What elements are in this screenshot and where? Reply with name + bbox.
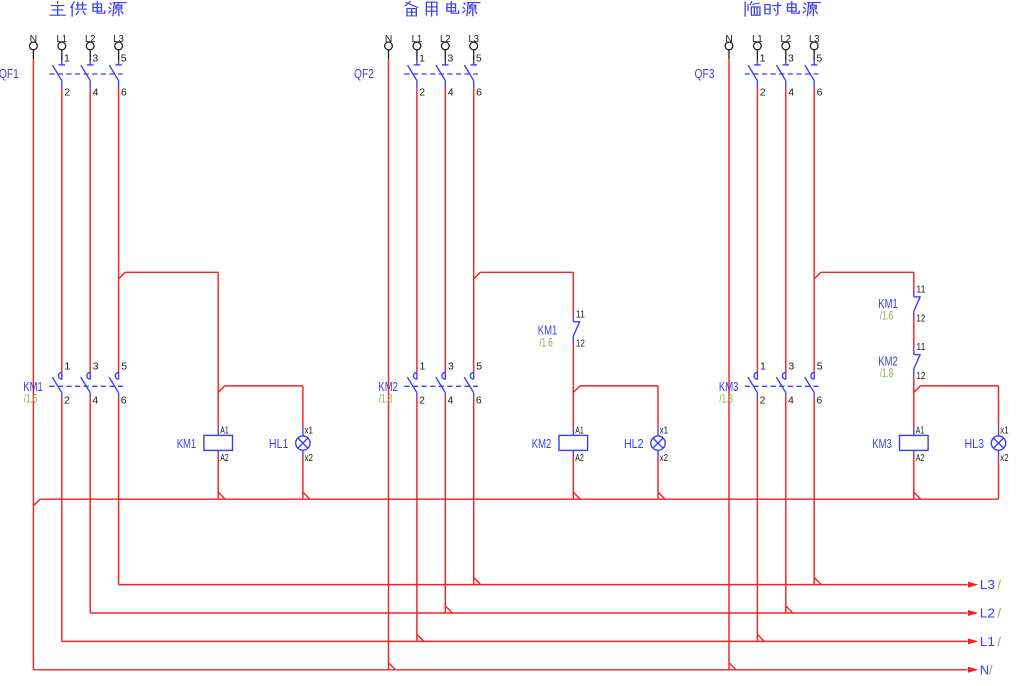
wire control branch 3 lower bbox=[913, 386, 915, 428]
svg-text:3: 3 bbox=[788, 360, 794, 372]
wire control branch 2 lower bbox=[572, 386, 574, 428]
wire L3 to bus bbox=[118, 397, 120, 584]
svg-text:2: 2 bbox=[419, 87, 425, 99]
wire control tap horizontal bbox=[480, 271, 573, 273]
svg-text:5: 5 bbox=[816, 53, 822, 65]
svg-text:1: 1 bbox=[760, 360, 766, 372]
label /1.8 bbox=[719, 392, 733, 406]
terminal L3 bbox=[809, 33, 820, 50]
junction coil KM1 on control bus bbox=[219, 492, 226, 499]
svg-text:6: 6 bbox=[816, 395, 822, 407]
wire control branch 3 mid2 bbox=[913, 377, 915, 386]
pin x1 bbox=[1000, 425, 1009, 437]
wire L1 vertical bbox=[756, 88, 758, 371]
section title 临时电源 bbox=[745, 2, 820, 17]
svg-text:N: N bbox=[980, 662, 989, 677]
wire L2 to bus bbox=[89, 397, 91, 613]
label QF3 bbox=[695, 66, 715, 81]
wire lamp HL1 to bus bbox=[302, 457, 304, 500]
svg-text:12: 12 bbox=[916, 370, 925, 382]
svg-text:HL3: HL3 bbox=[965, 436, 985, 451]
label KM1 (aux) bbox=[538, 322, 558, 337]
breaker QF1 pole 3 (pins 5-6) bbox=[109, 50, 127, 99]
pin x2 bbox=[1000, 452, 1009, 464]
pin 11 bbox=[916, 284, 925, 296]
svg-text:A2: A2 bbox=[575, 452, 584, 464]
svg-text:2: 2 bbox=[760, 395, 766, 407]
svg-text:x1: x1 bbox=[660, 425, 669, 437]
terminal L1 bbox=[412, 33, 423, 50]
pin 12 bbox=[916, 370, 925, 382]
pin A1 bbox=[916, 425, 925, 437]
contactor KM2 main pole 2 (pins 3-4) bbox=[436, 360, 454, 406]
svg-text:12: 12 bbox=[916, 312, 925, 324]
wire lamp HL2 upper bbox=[657, 386, 659, 428]
svg-text:4: 4 bbox=[448, 87, 454, 99]
svg-text:6: 6 bbox=[817, 87, 823, 99]
svg-text:KM2: KM2 bbox=[532, 436, 552, 451]
coil KM2 (pins A1-A2) bbox=[559, 428, 588, 456]
pin x2 bbox=[305, 452, 314, 464]
label HL1 bbox=[269, 436, 289, 451]
pin 12 bbox=[576, 337, 585, 349]
junction N bus bbox=[389, 663, 396, 670]
pin A1 bbox=[220, 425, 229, 437]
svg-text:x1: x1 bbox=[1000, 425, 1009, 437]
svg-text:5: 5 bbox=[121, 360, 127, 372]
aux contact KM2 (NC, pins 11-12) bbox=[914, 348, 921, 377]
wire N vertical bbox=[388, 59, 390, 670]
svg-text:3: 3 bbox=[93, 360, 99, 372]
net label L2 bbox=[980, 606, 995, 621]
svg-text:L3: L3 bbox=[113, 33, 124, 45]
wire L2 to bus bbox=[444, 397, 446, 613]
svg-text:L3: L3 bbox=[980, 577, 995, 592]
arrow L1 bbox=[968, 638, 978, 644]
wire bus L2 bbox=[90, 612, 967, 614]
terminal L1 bbox=[752, 33, 763, 50]
svg-text:2: 2 bbox=[760, 87, 766, 99]
svg-text:5: 5 bbox=[476, 53, 482, 65]
pin A2 bbox=[916, 452, 925, 464]
svg-text:1: 1 bbox=[419, 53, 425, 65]
wire L3 vertical lower bbox=[813, 272, 815, 371]
pin A1 bbox=[575, 425, 584, 437]
svg-text:/1.6: /1.6 bbox=[24, 392, 38, 406]
label KM2 (aux) bbox=[878, 354, 898, 369]
breaker QF2 pole 2 (pins 3-4) bbox=[436, 50, 454, 99]
wire control tap horizontal bbox=[821, 271, 914, 273]
terminal N bbox=[725, 33, 733, 50]
wire control branch 1 lower bbox=[217, 386, 219, 428]
label KM1 bbox=[23, 379, 43, 394]
terminal L3 bbox=[468, 33, 479, 50]
label /1.6 bbox=[24, 392, 38, 406]
junction L1 bus bbox=[417, 635, 424, 642]
net label N bbox=[980, 662, 989, 677]
wire lamp branch 1 horizontal bbox=[225, 385, 303, 387]
arrow L2 bbox=[968, 610, 978, 616]
svg-text:A2: A2 bbox=[220, 452, 229, 464]
wire N vertical bbox=[728, 59, 730, 670]
svg-text:A1: A1 bbox=[220, 425, 229, 437]
svg-text:N: N bbox=[725, 33, 733, 45]
junction tap on L3 bbox=[814, 272, 821, 279]
junction tap on L3 bbox=[119, 272, 126, 279]
svg-text:/: / bbox=[997, 606, 1001, 621]
svg-text:11: 11 bbox=[916, 341, 925, 353]
breaker QF2 pole 3 (pins 5-6) bbox=[464, 50, 482, 99]
junction lamp HL1 on control bus bbox=[303, 492, 310, 499]
svg-text:3: 3 bbox=[448, 53, 454, 65]
svg-text:5: 5 bbox=[817, 360, 823, 372]
junction coil KM3 on control bus bbox=[914, 492, 921, 499]
svg-text:4: 4 bbox=[448, 395, 454, 407]
breaker QF3 pole 1 (pins 1-2) bbox=[748, 50, 766, 99]
contactor KM3 main pole 3 (pins 5-6) bbox=[805, 360, 823, 406]
contactor KM3 main pole 1 (pins 1-2) bbox=[748, 360, 766, 406]
svg-text:A2: A2 bbox=[916, 452, 925, 464]
junction lamp HL2 on control bus bbox=[658, 492, 665, 499]
pin x1 bbox=[305, 425, 314, 437]
pin 11 bbox=[576, 308, 585, 320]
svg-text:11: 11 bbox=[916, 284, 925, 296]
wire control tap horizontal bbox=[125, 271, 218, 273]
wire coil KM2 to bus bbox=[572, 457, 574, 500]
svg-text:4: 4 bbox=[788, 395, 794, 407]
label KM1 (aux) bbox=[878, 296, 898, 311]
svg-text:/1.8: /1.8 bbox=[379, 392, 393, 406]
wire control branch 2 middle bbox=[572, 344, 574, 386]
lamp HL2 (pins x1-x2) bbox=[651, 428, 665, 456]
wire lamp HL3 upper bbox=[998, 386, 1000, 428]
terminal L2 bbox=[781, 33, 792, 50]
svg-text:L1: L1 bbox=[752, 33, 763, 45]
pin x2 bbox=[660, 452, 669, 464]
wire L3 to bus bbox=[813, 397, 815, 584]
svg-text:6: 6 bbox=[476, 395, 482, 407]
breaker QF3 linkage bbox=[745, 73, 819, 75]
terminal N bbox=[30, 33, 38, 50]
section title 备用电源 bbox=[405, 1, 480, 16]
junction coil KM2 on control bus bbox=[574, 492, 581, 499]
svg-text:QF1: QF1 bbox=[0, 66, 19, 81]
wire L1 to bus bbox=[756, 397, 758, 641]
lamp HL3 (pins x1-x2) bbox=[991, 428, 1005, 456]
wire L3 vertical lower bbox=[118, 272, 120, 371]
svg-text:/1.8: /1.8 bbox=[719, 392, 733, 406]
label /1.6 bbox=[880, 308, 894, 322]
wire L2 vertical bbox=[785, 88, 787, 371]
svg-text:HL2: HL2 bbox=[624, 436, 644, 451]
contactor KM2 main pole 3 (pins 5-6) bbox=[464, 360, 482, 406]
wire L3 vertical upper bbox=[813, 88, 815, 272]
breaker QF1 pole 2 (pins 3-4) bbox=[81, 50, 99, 99]
svg-text:KM3: KM3 bbox=[872, 436, 892, 451]
wire L3 vertical upper bbox=[473, 88, 475, 272]
junction L2 bus bbox=[786, 606, 793, 613]
label HL3 bbox=[965, 436, 985, 451]
junction lamp branch 3 bbox=[914, 386, 921, 393]
net label slash bbox=[997, 634, 1001, 649]
breaker QF2 linkage bbox=[404, 73, 478, 75]
svg-text:/1.6: /1.6 bbox=[880, 308, 894, 322]
svg-text:1: 1 bbox=[64, 360, 70, 372]
svg-text:QF3: QF3 bbox=[695, 66, 715, 81]
svg-text:1: 1 bbox=[420, 360, 426, 372]
svg-text:L1: L1 bbox=[980, 634, 995, 649]
wire L1 vertical bbox=[416, 88, 418, 371]
terminal L2 bbox=[440, 33, 451, 50]
svg-text:1: 1 bbox=[64, 53, 70, 65]
svg-text:5: 5 bbox=[121, 53, 127, 65]
wire lamp branch 2 horizontal bbox=[580, 385, 658, 387]
svg-text:x1: x1 bbox=[305, 425, 314, 437]
contactor KM3 main pole 2 (pins 3-4) bbox=[776, 360, 794, 406]
arrow N bbox=[968, 667, 978, 673]
label /1.6 bbox=[539, 335, 553, 349]
pin 12 bbox=[916, 312, 925, 324]
svg-text:3: 3 bbox=[92, 53, 98, 65]
contactor KM1 linkage bbox=[49, 385, 123, 387]
svg-text:/: / bbox=[989, 662, 993, 677]
svg-text:L2: L2 bbox=[440, 33, 451, 45]
terminal L3 bbox=[113, 33, 124, 50]
svg-text:N: N bbox=[385, 33, 393, 45]
svg-text:A1: A1 bbox=[575, 425, 584, 437]
wire L2 vertical bbox=[89, 88, 91, 371]
svg-text:L3: L3 bbox=[809, 33, 820, 45]
wire coil KM1 to bus bbox=[217, 457, 219, 500]
junction L3 bus bbox=[815, 578, 822, 585]
wire control branch 2 upper bbox=[572, 272, 574, 315]
contactor KM1 main pole 3 (pins 5-6) bbox=[109, 360, 127, 406]
svg-text:L3: L3 bbox=[468, 33, 479, 45]
wire lamp HL1 upper bbox=[302, 386, 304, 428]
wire bus L1 bbox=[62, 640, 968, 642]
svg-text:x2: x2 bbox=[305, 452, 314, 464]
wire bus L3 bbox=[119, 584, 968, 586]
junction lamp branch 2 bbox=[573, 386, 580, 393]
wire lamp HL3 to bus bbox=[998, 457, 1000, 500]
wire L2 to bus bbox=[785, 397, 787, 613]
wire coil KM3 to bus bbox=[913, 457, 915, 500]
terminal L1 bbox=[57, 33, 68, 50]
svg-text:N: N bbox=[30, 33, 38, 45]
svg-text:4: 4 bbox=[92, 395, 98, 407]
wire control branch 3 mid1 bbox=[913, 319, 915, 348]
svg-text:/: / bbox=[997, 577, 1001, 592]
wire control branch 3 upper bbox=[913, 272, 915, 290]
label KM2 bbox=[532, 436, 552, 451]
wire N stub bbox=[728, 50, 730, 59]
terminal N bbox=[385, 33, 393, 50]
contactor KM2 linkage bbox=[404, 385, 478, 387]
pin 11 bbox=[916, 341, 925, 353]
svg-text:HL1: HL1 bbox=[269, 436, 289, 451]
svg-text:2: 2 bbox=[64, 87, 70, 99]
wire N vertical bbox=[32, 59, 34, 670]
label KM3 bbox=[719, 379, 739, 394]
wire lamp branch 3 horizontal bbox=[920, 385, 998, 387]
contactor KM3 linkage bbox=[745, 385, 819, 387]
label /1.8 bbox=[379, 392, 393, 406]
label KM3 bbox=[872, 436, 892, 451]
breaker QF2 pole 1 (pins 1-2) bbox=[408, 50, 426, 99]
section title 主供电源 bbox=[50, 2, 126, 17]
breaker QF3 pole 2 (pins 3-4) bbox=[777, 50, 795, 99]
wire control branch 1 upper bbox=[217, 272, 219, 386]
svg-text:2: 2 bbox=[64, 395, 70, 407]
pin x1 bbox=[660, 425, 669, 437]
svg-text:L2: L2 bbox=[85, 33, 96, 45]
label QF1 bbox=[0, 66, 19, 81]
svg-text:L1: L1 bbox=[412, 33, 423, 45]
junction control bus on N bbox=[33, 499, 40, 506]
label QF2 bbox=[354, 66, 374, 81]
contactor KM1 main pole 1 (pins 1-2) bbox=[52, 360, 70, 406]
pin A2 bbox=[220, 452, 229, 464]
svg-text:6: 6 bbox=[121, 395, 127, 407]
terminal L2 bbox=[85, 33, 96, 50]
wire N stub bbox=[32, 50, 34, 59]
wire lamp HL2 to bus bbox=[657, 457, 659, 500]
wire control bus (N net) bbox=[40, 498, 999, 500]
junction L1 bus bbox=[758, 635, 765, 642]
wire L1 vertical bbox=[61, 88, 63, 371]
coil KM3 (pins A1-A2) bbox=[900, 428, 929, 456]
junction lamp branch 1 bbox=[218, 386, 225, 393]
contactor KM1 main pole 2 (pins 3-4) bbox=[81, 360, 99, 406]
svg-text:11: 11 bbox=[576, 308, 585, 320]
net label L1 bbox=[980, 634, 995, 649]
svg-text:L2: L2 bbox=[781, 33, 792, 45]
svg-text:3: 3 bbox=[788, 53, 794, 65]
wire bus N bbox=[33, 669, 967, 671]
svg-text:4: 4 bbox=[788, 87, 794, 99]
aux contact KM1 (NC, pins 11-12) bbox=[573, 315, 580, 344]
svg-text:x2: x2 bbox=[1000, 452, 1009, 464]
label KM2 bbox=[378, 379, 398, 394]
svg-text:/: / bbox=[997, 634, 1001, 649]
junction L2 bus bbox=[446, 606, 453, 613]
svg-text:2: 2 bbox=[419, 395, 425, 407]
label KM1 bbox=[177, 436, 197, 451]
svg-text:6: 6 bbox=[476, 87, 482, 99]
breaker QF1 linkage bbox=[49, 73, 123, 75]
svg-text:6: 6 bbox=[121, 87, 127, 99]
svg-text:4: 4 bbox=[93, 87, 99, 99]
svg-text:L2: L2 bbox=[980, 606, 995, 621]
junction N bus bbox=[729, 663, 736, 670]
svg-text:QF2: QF2 bbox=[354, 66, 374, 81]
svg-text:/1.8: /1.8 bbox=[880, 366, 894, 380]
aux contact KM1 (NC, pins 11-12) bbox=[914, 290, 921, 319]
breaker QF1 pole 1 (pins 1-2) bbox=[53, 50, 71, 99]
junction L3 bus bbox=[474, 578, 481, 585]
svg-text:/1.6: /1.6 bbox=[539, 335, 553, 349]
net label slash bbox=[997, 606, 1001, 621]
svg-text:L1: L1 bbox=[57, 33, 68, 45]
arrow L3 bbox=[968, 582, 978, 588]
pin A2 bbox=[575, 452, 584, 464]
breaker QF3 pole 3 (pins 5-6) bbox=[805, 50, 823, 99]
contactor KM2 main pole 1 (pins 1-2) bbox=[407, 360, 425, 406]
svg-text:3: 3 bbox=[448, 360, 454, 372]
net label L3 bbox=[980, 577, 995, 592]
wire L1 to bus bbox=[61, 397, 63, 641]
wire L3 vertical upper bbox=[118, 88, 120, 272]
svg-text:12: 12 bbox=[576, 337, 585, 349]
wire L2 vertical bbox=[444, 88, 446, 371]
svg-text:1: 1 bbox=[760, 53, 766, 65]
wire L1 to bus bbox=[416, 397, 418, 641]
wire L3 vertical lower bbox=[473, 272, 475, 371]
svg-text:KM1: KM1 bbox=[177, 436, 197, 451]
net label slash bbox=[989, 662, 993, 677]
wire L3 to bus bbox=[473, 397, 475, 584]
wire N stub bbox=[388, 50, 390, 59]
label HL2 bbox=[624, 436, 644, 451]
svg-text:5: 5 bbox=[476, 360, 482, 372]
net label slash bbox=[997, 577, 1001, 592]
lamp HL1 (pins x1-x2) bbox=[296, 428, 310, 456]
junction tap on L3 bbox=[474, 272, 481, 279]
coil KM1 (pins A1-A2) bbox=[204, 428, 233, 456]
label /1.8 bbox=[880, 366, 894, 380]
svg-text:A1: A1 bbox=[916, 425, 925, 437]
svg-text:x2: x2 bbox=[660, 452, 669, 464]
